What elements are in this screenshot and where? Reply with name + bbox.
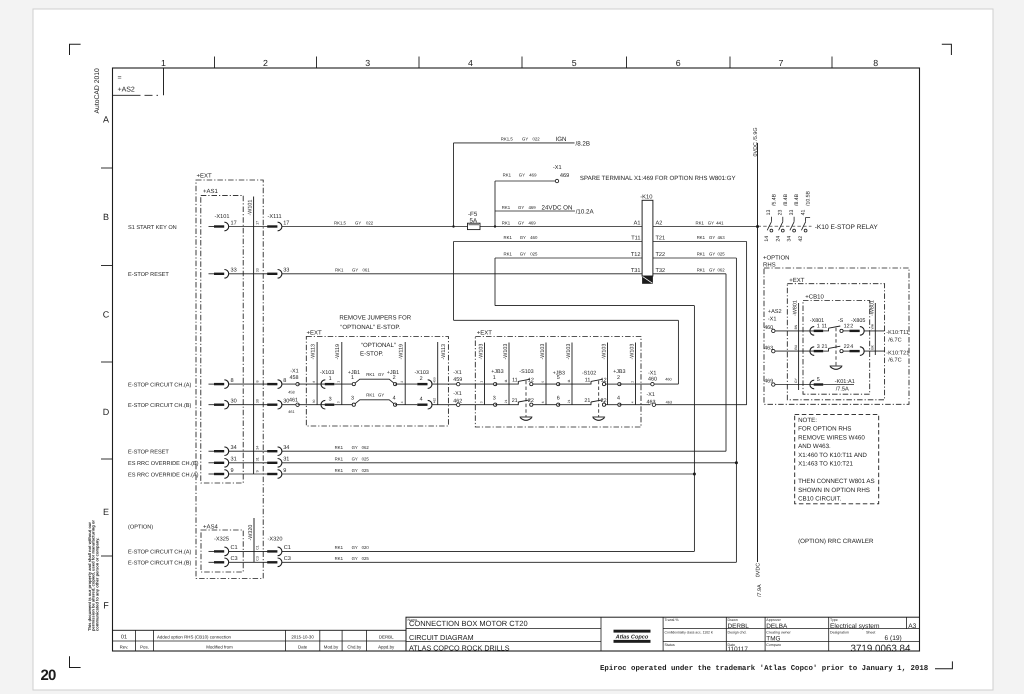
wire 24VDC ON branch [495, 210, 575, 212]
Atlas Copco logo [614, 630, 651, 643]
svg-text:061: 061 [363, 267, 371, 272]
svg-text:11: 11 [567, 379, 571, 383]
terminal circle +JB3:6 [557, 403, 560, 406]
svg-text:BU: BU [794, 344, 798, 349]
title block horizontal dividers [406, 629, 920, 642]
junction row9 and T12 drop [693, 473, 696, 476]
svg-text:Designation: Designation [830, 631, 849, 635]
svg-text:01: 01 [121, 635, 127, 641]
svg-text:Creating owner: Creating owner [766, 631, 791, 635]
wire E-STOP RESET (061) from -X111:33 to -K10:T31 [282, 273, 643, 275]
svg-text:020: 020 [362, 545, 370, 550]
svg-text:-W113: -W113 [310, 344, 316, 359]
svg-text:30: 30 [255, 399, 259, 403]
svg-text:460: 460 [648, 377, 657, 383]
svg-text:-W103: -W103 [479, 344, 485, 360]
svg-text:C3: C3 [255, 556, 259, 561]
svg-text:S1 START KEY ON: S1 START KEY ON [128, 225, 177, 231]
wire CH(B) from -X111:30 to X1:461 [282, 404, 298, 406]
svg-text:025: 025 [362, 468, 370, 473]
connector -X101:30 [214, 400, 229, 409]
svg-text:“OPTIONAL”: “OPTIONAL” [361, 342, 396, 349]
svg-text:469: 469 [529, 172, 537, 177]
svg-text:2: 2 [393, 375, 396, 381]
svg-text:-X103: -X103 [320, 370, 334, 376]
svg-text:RK1: RK1 [503, 172, 512, 177]
svg-text:T12: T12 [631, 252, 641, 258]
svg-text:Modified from: Modified from [206, 645, 233, 650]
svg-text:RK1: RK1 [696, 220, 705, 225]
wire -S102 to +JB3:4 [606, 404, 620, 406]
svg-text:062: 062 [718, 267, 726, 272]
svg-text:025: 025 [362, 556, 370, 561]
drop wire T22 through row 31 to C3 [735, 258, 737, 562]
svg-text:022: 022 [366, 220, 374, 225]
svg-text:GY: GY [352, 267, 358, 272]
svg-text:21: 21 [512, 398, 518, 404]
svg-text:3: 3 [479, 401, 483, 403]
svg-text:GY: GY [519, 172, 525, 177]
terminal circle +JB1:3 [352, 403, 355, 406]
wire label RK1 GY 062 (T32) [697, 267, 726, 272]
svg-text:AutoCAD 2010: AutoCAD 2010 [94, 68, 101, 114]
svg-text:-W113: -W113 [441, 344, 447, 359]
svg-text:41: 41 [800, 210, 806, 216]
svg-text:-X1: -X1 [453, 370, 461, 376]
svg-text:GY: GY [352, 556, 358, 561]
wire +JB3:2 exit [619, 383, 650, 385]
svg-text:4: 4 [400, 401, 404, 403]
svg-text:12: 12 [528, 378, 534, 384]
svg-text:/6.7C: /6.7C [888, 357, 901, 364]
svg-text:GY: GY [520, 252, 526, 257]
svg-text:E-STOP CIRCUIT CH.(A): E-STOP CIRCUIT CH.(A) [128, 549, 192, 556]
svg-text:/7.5A: /7.5A [836, 385, 849, 392]
wire -X101:34 to -X111:34 [229, 450, 268, 452]
wire -X805:2 exit [864, 330, 885, 332]
svg-text:RK1: RK1 [335, 556, 344, 561]
svg-text:2: 2 [630, 381, 634, 383]
svg-text:REMOVE WIRES W460: REMOVE WIRES W460 [798, 434, 865, 441]
grid row tick D/E [101, 458, 113, 460]
svg-text:-W119: -W119 [399, 344, 405, 359]
svg-text:-W103: -W103 [540, 344, 546, 360]
wire X1:458 into OPTIONAL E-STOP box [298, 383, 326, 385]
junction wire1 to IGN riser [452, 225, 454, 227]
cable -W103 #4 [571, 343, 573, 405]
wire -K10:T21 right [653, 241, 747, 243]
terminal circle -X1:462 [457, 403, 460, 406]
connector -X801:3 [810, 347, 823, 356]
wire X1:469 into CB10 [775, 384, 814, 386]
svg-text:RK1: RK1 [366, 372, 375, 377]
svg-text:RK1: RK1 [504, 235, 513, 240]
svg-text:GY: GY [709, 267, 715, 272]
wire label RK1 GY 469 (spare) [503, 172, 537, 177]
wire label RK1 GY 469 (A1 feed) [502, 220, 536, 225]
svg-text:Status: Status [665, 643, 675, 647]
svg-text:/10.5B: /10.5B [806, 190, 812, 206]
svg-text:022: 022 [533, 137, 541, 142]
svg-text:13: 13 [766, 210, 772, 216]
wire label RK1 GY 025 (T12) [504, 252, 538, 257]
svg-text:460: 460 [530, 235, 538, 240]
svg-text:441: 441 [716, 220, 724, 225]
svg-text:/8.4B: /8.4B [794, 193, 800, 206]
svg-text:-W101: -W101 [247, 200, 253, 216]
svg-text:GY: GY [378, 372, 384, 377]
svg-text:24VDC ON: 24VDC ON [542, 204, 573, 211]
wire stub -X325:C1 [209, 550, 215, 552]
svg-text:5: 5 [557, 375, 560, 381]
svg-text:ES RRC OVERRIDE CH.(B): ES RRC OVERRIDE CH.(B) [128, 460, 199, 467]
terminal circle -X1:469 (RHS) [772, 383, 775, 386]
connector -X101:34 [214, 447, 229, 456]
svg-text:DERBL: DERBL [379, 634, 394, 639]
svg-text:4: 4 [617, 395, 620, 401]
svg-text:-K01:A1: -K01:A1 [835, 379, 855, 385]
wire label RK1 GY 463 [697, 235, 726, 240]
svg-text:RK1: RK1 [335, 267, 344, 272]
wire -X101:8 to -X111:8 [229, 383, 268, 385]
wire X1:463 to riser (T21) [656, 404, 747, 406]
svg-text:RHS: RHS [763, 261, 776, 268]
svg-text:E-STOP CIRCUIT CH.(B): E-STOP CIRCUIT CH.(B) [128, 402, 192, 409]
cable -W103 #5 [607, 343, 609, 405]
svg-text:463: 463 [647, 399, 656, 405]
svg-text:Sheet: Sheet [866, 631, 875, 635]
connector -X801:1 [810, 327, 823, 336]
wire -K10:T12 to riser [495, 257, 642, 259]
connector -X111:9 [267, 470, 282, 479]
relay coil -K10 [642, 200, 653, 283]
svg-text:-W320: -W320 [248, 525, 254, 541]
connector -X111:33 [267, 270, 282, 279]
svg-text:6: 6 [557, 395, 560, 401]
wire row 9 (ES RRC OVERRIDE CH(A) 025) [282, 473, 695, 475]
wire IGN reference [454, 142, 575, 144]
svg-text:2: 2 [263, 58, 268, 68]
svg-text:30: 30 [312, 399, 316, 403]
connector -X320:C3 [267, 558, 282, 567]
wire +JB3:3 to -S103 [495, 404, 518, 406]
svg-text:463: 463 [718, 235, 726, 240]
svg-text:NOTE:: NOTE: [798, 417, 817, 424]
svg-text:Added option RHS (CB10) connec: Added option RHS (CB10) connection [157, 634, 232, 639]
wire label RK1 GY 025 (C3) [335, 556, 370, 561]
wire -K10:T11 to riser [454, 241, 643, 243]
svg-text:Design chd.: Design chd. [728, 631, 747, 635]
svg-text:GY: GY [355, 220, 361, 225]
wire +JB3:1 to -S103 [495, 383, 518, 385]
terminal circle +JB3:2 [618, 383, 621, 386]
svg-text:3: 3 [493, 395, 496, 401]
svg-text:Rev.: Rev. [120, 645, 129, 650]
svg-text:E-STOP CIRCUIT CH.(A): E-STOP CIRCUIT CH.(A) [128, 381, 192, 388]
svg-text:2: 2 [420, 376, 423, 382]
cable -W103 #2 [508, 343, 510, 405]
terminal circle +JB3:5 [557, 383, 560, 386]
svg-text:FOR OPTION RHS: FOR OPTION RHS [798, 426, 851, 433]
grid row tick C/D [101, 361, 113, 363]
cable -W101 [253, 197, 255, 475]
switch contact -S103 21/22 [518, 400, 533, 407]
terminal circle -X1:469 (spare) [555, 179, 558, 182]
actuator link -S102 [598, 381, 600, 417]
svg-text:8: 8 [283, 378, 286, 384]
svg-text:/8.2B: /8.2B [576, 141, 590, 148]
connector -X103:3 [321, 400, 334, 409]
svg-text:RK1: RK1 [335, 468, 344, 473]
wire label RK1 GY 025 (31) [335, 457, 370, 462]
wire stub -X101:31 [209, 462, 215, 464]
svg-text:=: = [118, 75, 122, 82]
wire label RK1 GY 441 [696, 220, 725, 225]
drop wire to X1:460 [677, 320, 679, 384]
svg-text:GY: GY [352, 545, 358, 550]
cable -W103 #1 [484, 343, 486, 405]
terminal circle +JB3:4 [618, 403, 621, 406]
emergency-stop head -S102 [592, 417, 605, 420]
svg-text:+AS2: +AS2 [768, 309, 782, 315]
wire from fuse -F5 to -K10:A1 [480, 226, 642, 228]
terminal circle -X1:460 [651, 382, 654, 385]
cable -W113 [316, 342, 318, 405]
svg-text:-K10 E-STOP RELAY: -K10 E-STOP RELAY [815, 224, 879, 231]
cable -W801 (right) [874, 303, 876, 355]
grid row tick E/F [101, 555, 113, 557]
terminal circle -X1:463 (RHS) [772, 349, 775, 352]
connector -X101:31 [214, 459, 229, 468]
svg-text:1: 1 [493, 375, 496, 381]
svg-text:CONNECTION BOX MOTOR CT20: CONNECTION BOX MOTOR CT20 [409, 619, 528, 628]
svg-text:RK1: RK1 [502, 220, 511, 225]
grid column tick 5 [626, 57, 628, 69]
enclosure box +OPTION RHS [764, 268, 909, 404]
svg-text:RK1: RK1 [697, 252, 706, 257]
K10 auxiliary contact 13/14 [767, 217, 773, 232]
svg-text:2: 2 [850, 324, 853, 330]
wire -X805:4 exit [864, 350, 885, 352]
svg-text:11: 11 [504, 379, 508, 383]
cable -W113 [437, 342, 439, 405]
svg-text:RK1: RK1 [697, 267, 706, 272]
svg-text:Mod.by: Mod.by [324, 645, 339, 650]
svg-text:Chd.by: Chd.by [347, 645, 362, 650]
svg-text:F: F [103, 601, 109, 611]
svg-text:GY: GY [352, 445, 358, 450]
terminal circle +JB3:1 [494, 383, 497, 386]
svg-text:21: 21 [567, 399, 571, 403]
svg-text:+EXT: +EXT [789, 277, 805, 284]
K10 auxiliary contact 41/42 [801, 218, 810, 232]
wire row 31 (ES RRC OVERRIDE CH(B) 025) [282, 462, 737, 464]
svg-text:3: 3 [817, 344, 820, 350]
wire label RK1 GY 061 [335, 267, 370, 272]
wire -X325:C1 to -X320:C1 [229, 550, 268, 552]
sheet designation box =+AS2 [163, 68, 165, 95]
terminal circle -X1:461 [296, 403, 299, 406]
svg-text:3: 3 [365, 58, 370, 68]
svg-text:-W119: -W119 [335, 344, 341, 359]
wire -X101:33 to -X111:33 [229, 273, 268, 275]
wire row C3 (025) [282, 561, 737, 563]
svg-text:4: 4 [393, 395, 396, 401]
svg-text:1: 1 [351, 375, 354, 381]
wire X1:463 into CB10 [775, 350, 814, 352]
svg-text:RK1: RK1 [335, 445, 344, 450]
svg-text:GY: GY [708, 220, 714, 225]
document disclaimer rotated text [87, 520, 100, 631]
wire -X101:30 to -X111:30 [229, 404, 268, 406]
svg-text:DELBA: DELBA [766, 623, 788, 630]
svg-text:AND W463.: AND W463. [798, 443, 831, 450]
svg-text:Appd.by: Appd.by [378, 645, 395, 650]
svg-text:B: B [103, 212, 109, 222]
connector -X103:4 [417, 400, 432, 409]
svg-text:4: 4 [630, 401, 634, 403]
connector -X805:2 [850, 327, 865, 336]
svg-text:+EXT: +EXT [477, 329, 493, 336]
svg-text:T22: T22 [656, 252, 666, 258]
svg-text:SHOWN IN OPTION RHS: SHOWN IN OPTION RHS [798, 487, 870, 494]
svg-text:/5.4B: /5.4B [771, 193, 777, 206]
svg-text:34: 34 [787, 236, 793, 242]
wire -S103 to +JB3:6 [533, 404, 558, 406]
svg-text:RK1: RK1 [697, 235, 706, 240]
connector -X101:8 [214, 380, 229, 389]
wire stub -X325:C3 [209, 561, 215, 563]
svg-text:0VDC /5.9G: 0VDC /5.9G [753, 127, 759, 156]
svg-text:RK1,5: RK1,5 [334, 220, 347, 225]
svg-text:“OPTIONAL” E-STOP.: “OPTIONAL” E-STOP. [340, 324, 400, 331]
svg-text:463: 463 [666, 400, 672, 404]
svg-text:A: A [103, 115, 109, 125]
svg-text:460: 460 [665, 378, 671, 382]
svg-text:RK1: RK1 [335, 457, 344, 462]
wire -X103:3 to +JB1:3 [334, 404, 354, 406]
svg-text:Date: Date [298, 645, 308, 650]
junction row31 and T22 drop [735, 461, 738, 464]
svg-text:C3: C3 [231, 556, 238, 562]
wire X1:460 to riser W460 [654, 383, 678, 385]
grid column tick 7 [831, 57, 833, 69]
svg-text:3: 3 [329, 397, 332, 403]
wire -S102 to +JB3:2 [606, 383, 620, 385]
svg-text:2: 2 [617, 375, 620, 381]
grid row tick B/C [101, 265, 113, 267]
svg-text:9: 9 [231, 468, 234, 474]
cable -W801 (left) [798, 303, 800, 390]
svg-text:C1: C1 [255, 545, 259, 550]
wire +JB3:5 to -S102 [558, 383, 591, 385]
svg-text:42: 42 [798, 236, 804, 242]
connector -X111:30 [267, 400, 282, 409]
svg-text:/10.2A: /10.2A [576, 209, 595, 216]
wire -X801:3 to -S [823, 350, 828, 352]
svg-text:461: 461 [288, 410, 294, 414]
wire +JB3:6 to -S102 [558, 404, 591, 406]
connector -X111:8 [267, 380, 282, 389]
svg-text:C: C [103, 310, 110, 320]
junction A2 to 0VDC [756, 225, 759, 228]
svg-text:-W103: -W103 [566, 344, 572, 360]
svg-text:4: 4 [468, 58, 473, 68]
wire S1 start key on (022) from -X111:17 to fuse -F5 [282, 226, 468, 228]
terminal circle -X1:463 [652, 403, 655, 406]
terminal circle +JB1:2 [394, 383, 397, 386]
note box [795, 415, 879, 504]
svg-text:+AS4: +AS4 [203, 523, 219, 530]
svg-text:21: 21 [822, 344, 828, 350]
connector -X111:34 [267, 447, 282, 456]
wire -X101:31 to -X111:31 [229, 462, 268, 464]
0VDC rail [757, 143, 759, 562]
enclosure box +AS1 [201, 195, 243, 483]
wire -S to -X805:4 [843, 350, 849, 352]
svg-text:-K10:T11: -K10:T11 [886, 330, 909, 336]
svg-text:5A: 5A [470, 218, 478, 225]
svg-text:22: 22 [844, 344, 850, 350]
svg-text:CIRCUIT DIAGRAM: CIRCUIT DIAGRAM [409, 633, 474, 642]
svg-text:469: 469 [529, 205, 537, 210]
svg-text:C3: C3 [284, 556, 291, 562]
svg-text:BK: BK [871, 344, 875, 349]
svg-text:-X1: -X1 [290, 369, 298, 375]
wire CH(A) from -X111:8 to X1:458 [282, 383, 298, 385]
svg-text:E-STOP.: E-STOP. [360, 350, 384, 357]
connector -X320:C1 [267, 547, 282, 556]
connector -X101:9 [214, 470, 229, 479]
svg-text:025: 025 [718, 252, 726, 257]
svg-text:462: 462 [433, 398, 437, 404]
riser wire to 24VDC and spare terminal 469 [494, 181, 496, 227]
drop wire to override CH(A) row and C1 [693, 306, 695, 552]
svg-text:-X1: -X1 [553, 165, 562, 171]
svg-text:463: 463 [764, 345, 773, 351]
wire -X103 exit right [432, 383, 457, 385]
cable -W320 [253, 518, 255, 562]
svg-text:4: 4 [850, 344, 853, 350]
svg-text:SPARE TERMINAL X1:469 FOR OPTI: SPARE TERMINAL X1:469 FOR OPTION RHS W80… [580, 175, 736, 182]
svg-text:-W801: -W801 [793, 300, 799, 316]
jumper label RK1 GY [366, 393, 384, 398]
svg-text:Compare: Compare [766, 643, 781, 647]
wire -K10:T32 right [653, 273, 726, 275]
svg-text:A3: A3 [908, 623, 916, 630]
svg-text:31: 31 [255, 457, 259, 461]
svg-text:E-STOP RESET: E-STOP RESET [128, 272, 169, 278]
wire +JB3:4 exit [619, 404, 650, 406]
wire label RK1,5 GY 022 (row 17) [334, 220, 374, 225]
cable -W119 [404, 342, 406, 405]
K10 contact cross-reference dash-dot link [758, 225, 812, 227]
svg-text:+OPTION: +OPTION [763, 254, 790, 261]
svg-text:5: 5 [572, 58, 577, 68]
svg-text:22: 22 [528, 398, 534, 404]
connector -X103:1 [321, 380, 334, 389]
revision table lines [113, 630, 407, 651]
svg-text:2015-10-30: 2015-10-30 [291, 634, 314, 639]
svg-text:8: 8 [255, 381, 259, 383]
svg-text:+AS1: +AS1 [203, 188, 219, 195]
wire label RK1 GY 025 (T22) [697, 252, 726, 257]
svg-text:458: 458 [288, 390, 294, 394]
svg-text:6 (19): 6 (19) [885, 635, 902, 642]
drop wire T32 to row 34 [725, 274, 727, 451]
svg-text:X1:463 TO K10:T21: X1:463 TO K10:T21 [798, 461, 853, 468]
svg-text:1: 1 [161, 58, 166, 68]
